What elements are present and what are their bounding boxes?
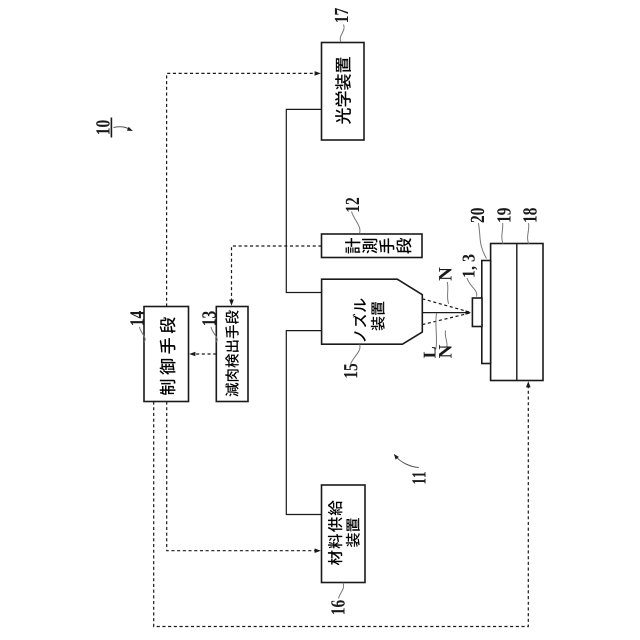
label N upper with leader [447, 282, 448, 304]
deposit bump 1,3 [472, 298, 482, 327]
label 10 underlined with pointer arrow [96, 128, 109, 134]
label 12 with leader [352, 212, 360, 234]
box 14 control means 制御手段 [144, 307, 189, 402]
label 13 with leader [211, 327, 217, 342]
label L with leader [435, 313, 438, 349]
box 12 measuring means 計測手段 [322, 234, 423, 258]
label 17 with leader [340, 25, 344, 43]
label 18 with leader [528, 223, 529, 244]
wire: dashed control line 14 to optical device 17 [167, 73, 318, 306]
label 16 with leader [339, 583, 344, 599]
wire: dashed line detection means 13 to control means 14 [192, 353, 217, 355]
wire: solid connector nozzle to material supply device [286, 331, 321, 515]
label 14 with leader [140, 327, 146, 342]
wire: dashed control line 14 to workpiece stage [154, 384, 529, 626]
entire patent figure drawn in landscape coords, rotated -90deg [96, 8, 543, 626]
box 16 material supply device 材料供給装置 [322, 485, 366, 583]
powder stream N dashed right [422, 299, 470, 312]
label 15 with leader [351, 344, 360, 364]
box 17 optical device 光学装置 [322, 43, 365, 141]
label 19 with leader [502, 223, 503, 244]
laser beam L solid line with arrow [422, 312, 467, 314]
workpiece layer 19 and base 18 [491, 244, 543, 381]
wire: solid connector optical device to nozzle [286, 109, 321, 292]
label 20 with leader [478, 223, 486, 258]
box 13 wall-thinning detection means 減肉検出手段 [216, 307, 248, 402]
nozzle device 15 ノズル装置 [322, 279, 423, 344]
layer 20 [482, 261, 491, 364]
wire: dashed control line 14 to material supply 16 [167, 402, 318, 551]
label 11 with pointer arrow [412, 479, 425, 484]
wire: dashed line measuring means 12 to detection means 13 [232, 246, 322, 303]
label N lower with leader [445, 331, 447, 348]
label 1,3 with leader [467, 278, 477, 297]
powder stream N dashed left [422, 313, 470, 325]
